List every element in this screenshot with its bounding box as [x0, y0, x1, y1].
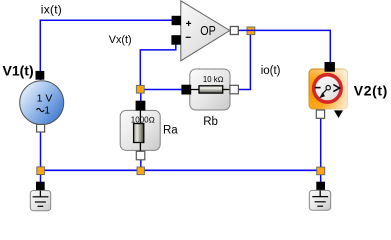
- node Vx junction: [136, 86, 144, 94]
- marker triangle (measurement direction): [334, 110, 343, 118]
- wire right junction down to ground G2 pin: [320, 170, 322, 184]
- wire output node down and left to Rb right pin: [238, 30, 251, 89]
- ground G1: [30, 182, 50, 211]
- wire ix: V1 top pin up and right to op-amp + input: [40, 20, 172, 80]
- wire node Vx to Rb left pin: [140, 89, 184, 91]
- svg-text:1: 1: [44, 105, 50, 117]
- svg-text:Ra: Ra: [163, 125, 178, 137]
- wire bottom bus (ground rail): [41, 169, 321, 171]
- pin op-amp out (open): [230, 27, 238, 35]
- voltmeter sensor V2: [309, 69, 348, 109]
- pin Ra top (filled): [136, 101, 145, 110]
- svg-text:OP: OP: [200, 23, 216, 38]
- svg-text:10 kΩ: 10 kΩ: [203, 75, 224, 84]
- pin Ra bottom (open): [136, 151, 145, 160]
- wire Vx: op-amp - input down, left, down to node Vx: [140, 43, 176, 87]
- svg-text:io(t): io(t): [261, 65, 281, 77]
- node bus-mid junction: [137, 167, 144, 175]
- node bus-left junction: [37, 167, 45, 175]
- pin op-amp in+: [172, 16, 180, 24]
- node bus-right junction: [317, 167, 325, 175]
- svg-text:ix(t): ix(t): [41, 3, 62, 17]
- pin V2 top (filled): [325, 63, 334, 72]
- svg-text:1 V: 1 V: [37, 93, 53, 105]
- resistor Ra (1000 Ohm, vertical): [120, 110, 160, 151]
- wire node Vx down to Ra top pin: [140, 90, 142, 103]
- node output junction: [247, 27, 255, 35]
- pin Rb right (open): [230, 85, 239, 94]
- wire V2 bottom pin down to bottom bus: [320, 117, 322, 171]
- ground G2: [309, 182, 330, 211]
- wire Ra bottom pin to bottom bus: [140, 158, 142, 171]
- pin V1.n (bottom, open): [37, 124, 45, 132]
- svg-text:Vx(t): Vx(t): [109, 34, 132, 46]
- pin Rb left (filled): [182, 85, 191, 94]
- pin V1.p (top, filled): [36, 71, 44, 79]
- wire left junction down to ground G1 pin: [40, 170, 42, 184]
- svg-text:V1(t): V1(t): [3, 62, 34, 78]
- wire op-amp output through junction right and down to V2 top pin: [237, 30, 330, 64]
- wire V1 bottom pin down to bottom bus: [40, 131, 42, 171]
- pin op-amp in-: [172, 36, 181, 45]
- pin V2 bottom (open): [316, 110, 324, 118]
- svg-text:Rb: Rb: [203, 116, 218, 128]
- svg-text:V2(t): V2(t): [354, 83, 388, 99]
- resistor Rb (10 kOhm, horizontal): [190, 69, 230, 110]
- op-amp U1 (OP): [181, 1, 230, 61]
- voltage source V1 (sine, 1 V): [20, 81, 64, 125]
